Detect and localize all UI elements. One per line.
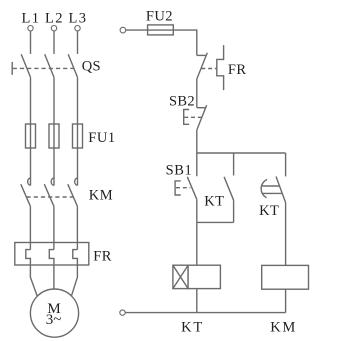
svg-text:FR: FR xyxy=(228,62,247,78)
FR NC contact seat xyxy=(197,54,206,56)
wire KM to FR pole 1 xyxy=(29,206,31,249)
thermal relay FR box xyxy=(15,243,89,266)
QS handle bar xyxy=(11,62,13,75)
wire KM coil to bottom rail xyxy=(285,289,287,312)
FR NC contact blade xyxy=(197,53,208,79)
svg-text:SB1: SB1 xyxy=(166,163,193,179)
svg-text:FU2: FU2 xyxy=(146,9,173,25)
svg-text:KT: KT xyxy=(204,193,224,209)
wire KM to FR pole 2 xyxy=(53,206,55,249)
contactor coil KM xyxy=(262,265,309,289)
wire junction to KT aux contact xyxy=(233,153,235,176)
wire QS to FU1 pole 1 xyxy=(30,77,32,124)
FR heater element pole 2 xyxy=(49,250,54,265)
svg-text:SB2: SB2 xyxy=(169,93,195,109)
svg-text:FR: FR xyxy=(93,249,112,265)
knife switch QS pole 2 blade xyxy=(45,54,54,77)
contact KT (self-hold NO) blade xyxy=(224,177,234,200)
contactor KM pole 3 contact xyxy=(68,178,78,206)
svg-text:KT: KT xyxy=(259,203,279,219)
wire L3 to QS xyxy=(77,31,79,54)
wire FR to motor pole 2 xyxy=(53,265,55,289)
wire FU1 to KM pole 3 xyxy=(77,148,79,185)
svg-text:L2: L2 xyxy=(45,10,64,26)
wire FU1 to KM pole 1 xyxy=(30,148,32,185)
wire QS to FU1 pole 3 xyxy=(77,77,79,124)
contactor KM pole 1 contact xyxy=(21,178,31,206)
svg-text:L1: L1 xyxy=(21,10,40,26)
svg-text:3~: 3~ xyxy=(46,312,62,328)
SB1 button actuator xyxy=(175,181,181,195)
wire KM to FR pole 3 xyxy=(76,206,78,249)
fuse FU1 pole 2 xyxy=(49,124,59,148)
knife switch QS pole 1 blade xyxy=(21,54,30,77)
SB2 button actuator xyxy=(184,110,189,125)
wire L1 to QS xyxy=(30,31,32,54)
contactor KM pole 2 contact xyxy=(44,178,54,206)
knife switch QS pole 3 blade xyxy=(68,54,77,77)
wire FU1 to KM pole 2 xyxy=(53,148,55,185)
contact KT delayed blade xyxy=(276,177,286,203)
wire SB1 to parallel join xyxy=(196,199,198,222)
wire junction rail to right branch xyxy=(197,152,286,154)
KM linkage dashed line xyxy=(27,196,74,198)
wire parallel join bar xyxy=(197,221,234,223)
wire FR to motor pole 3 xyxy=(71,265,77,296)
svg-text:L3: L3 xyxy=(68,10,87,26)
svg-text:QS: QS xyxy=(82,59,101,75)
fuse FU1 pole 1 xyxy=(26,124,36,148)
KT delay chord lower xyxy=(263,192,283,194)
control bottom terminal node xyxy=(120,310,125,315)
wire junction to SB1 xyxy=(196,153,198,176)
node L2 xyxy=(45,10,64,31)
pushbutton SB2 blade xyxy=(197,105,207,130)
pushbutton SB1 blade xyxy=(187,177,197,200)
wire join to KT coil xyxy=(196,222,198,265)
SB1 dashed link xyxy=(176,187,190,189)
wire L2 to QS xyxy=(53,31,55,54)
node L1 xyxy=(21,10,40,31)
control top terminal node xyxy=(120,27,126,33)
wire KT coil to bottom rail xyxy=(196,289,198,313)
FR heater element pole 3 xyxy=(73,250,78,265)
FR thermal actuator xyxy=(217,45,224,90)
fuse FU1 pole 3 xyxy=(73,124,83,148)
wire FR contact to SB2 xyxy=(196,79,198,108)
FR heater element pole 1 xyxy=(26,250,31,265)
wire FR to motor pole 1 xyxy=(30,265,37,296)
wire SB2 to junction xyxy=(196,130,198,153)
wire rail to KT delayed contact xyxy=(285,153,287,176)
svg-text:KT: KT xyxy=(181,319,204,335)
wire KT delayed contact to KM coil xyxy=(285,203,287,266)
wire terminal to FU2 and corner down xyxy=(126,30,197,55)
SB2 dashed link xyxy=(184,116,201,118)
motor M xyxy=(30,289,78,337)
KT delay chord upper xyxy=(262,185,279,187)
svg-text:KM: KM xyxy=(270,319,297,335)
FR dashed link xyxy=(201,68,216,70)
time relay coil KT xyxy=(173,265,221,288)
wire QS to FU1 pole 2 xyxy=(53,77,55,124)
node L3 xyxy=(68,10,87,31)
QS linkage dashed line xyxy=(13,67,74,69)
wire KT aux to parallel join xyxy=(233,200,235,222)
fuse FU2 xyxy=(148,25,174,35)
KT delay arc xyxy=(261,179,267,197)
svg-text:FU1: FU1 xyxy=(88,130,115,146)
svg-text:KM: KM xyxy=(89,188,113,204)
pushbutton SB2 contact seat xyxy=(197,107,206,109)
wire bottom rail xyxy=(125,312,285,314)
